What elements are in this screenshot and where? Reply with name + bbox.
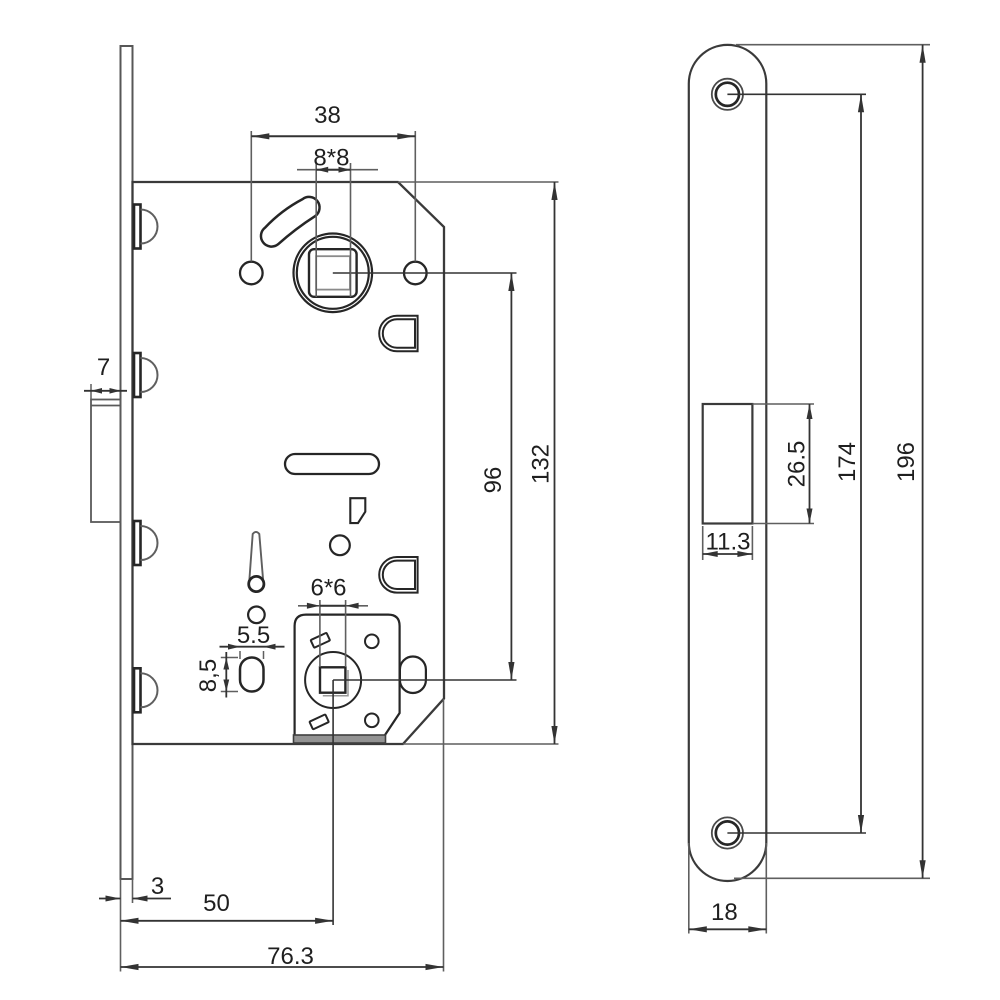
dimension 3 (faceplate thickness) <box>99 898 121 900</box>
strike plate outline (front view) <box>689 45 767 881</box>
svg-text:132: 132 <box>528 444 555 484</box>
magnet latch block outline <box>295 615 400 737</box>
svg-text:8*8: 8*8 <box>313 145 349 172</box>
svg-text:8,5: 8,5 <box>195 659 222 692</box>
svg-text:196: 196 <box>893 442 920 482</box>
rotated rect cutout upper <box>311 633 330 648</box>
mounting hole right (38 dim) <box>404 262 427 285</box>
magnet square hole 6x6 <box>320 667 345 692</box>
leader from magnet center right <box>333 679 516 681</box>
oblong slot 5.5 x 8.5 <box>240 658 264 692</box>
spindle follower outer circles <box>294 233 373 312</box>
small circle mid <box>330 535 350 555</box>
side oval lug <box>400 657 426 694</box>
svg-text:11.3: 11.3 <box>706 529 751 556</box>
svg-text:6*6: 6*6 <box>310 575 346 602</box>
pentagon cutout <box>350 498 365 523</box>
small circle below teardrop <box>248 607 265 624</box>
leader from magnet center down <box>332 680 334 925</box>
screw hole top <box>712 79 743 110</box>
dimension 26.5 <box>752 403 814 405</box>
svg-text:5.5: 5.5 <box>237 622 270 649</box>
dimension 6*6 <box>319 600 321 667</box>
dimension 76.3 <box>443 699 445 972</box>
magnet follower circle <box>305 652 361 708</box>
magnetic strike box on faceplate <box>91 400 121 523</box>
block screw circle upper <box>365 635 379 649</box>
rivet tab 2 on left edge <box>134 353 158 397</box>
teardrop pin <box>249 532 263 581</box>
dimension 132 <box>398 181 559 183</box>
dimension 96 <box>510 273 512 680</box>
svg-text:50: 50 <box>203 890 230 917</box>
central oblong slot <box>285 454 379 474</box>
dimension 7 (strike box protrusion) <box>90 384 92 399</box>
D-shaped cutout lower <box>379 557 417 593</box>
svg-text:3: 3 <box>151 873 164 900</box>
lock body outline <box>133 182 445 744</box>
svg-text:174: 174 <box>834 442 861 482</box>
dimension 50 <box>121 920 334 922</box>
dimension 5.5 <box>239 651 241 659</box>
dimension 38 <box>250 131 252 262</box>
svg-text:26.5: 26.5 <box>784 441 811 488</box>
rivet tab 4 on left edge <box>134 668 158 712</box>
rivet tab 3 on left edge <box>134 521 158 565</box>
spindle follower boss square <box>309 249 357 297</box>
rivet tab 1 on left edge <box>134 205 158 249</box>
svg-text:7: 7 <box>97 354 110 381</box>
dimension 196 <box>736 44 930 46</box>
D-shaped cutout upper <box>379 316 417 352</box>
dimension 11.3 <box>702 526 704 560</box>
svg-text:76.3: 76.3 <box>267 943 314 970</box>
dimension 18 <box>688 843 690 934</box>
banana-shaped slot <box>261 197 320 247</box>
svg-text:38: 38 <box>314 102 341 129</box>
rotated rect cutout lower <box>309 714 328 729</box>
mounting hole left (38 dim) <box>240 262 263 285</box>
block screw circle lower <box>365 714 379 728</box>
magnet block foot bar <box>294 735 386 743</box>
svg-text:18: 18 <box>711 899 738 926</box>
faceplate (lock front plate, side view) <box>121 46 133 879</box>
dimension 8,5 <box>221 657 238 659</box>
dimension 174 <box>727 93 866 95</box>
dimension 8*8 <box>315 163 317 297</box>
leader line from spindle center <box>333 272 517 274</box>
spindle square hole 8x8 <box>316 256 350 289</box>
plate cutout rectangle <box>703 404 753 524</box>
svg-text:96: 96 <box>480 467 507 494</box>
screw hole bottom <box>712 817 743 848</box>
faceplate extension lines down <box>120 879 122 972</box>
